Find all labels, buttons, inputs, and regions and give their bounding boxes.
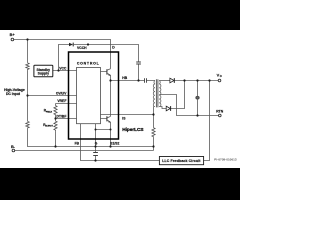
svg-text:OV/UV: OV/UV bbox=[56, 91, 67, 95]
svg-text:FB: FB bbox=[75, 142, 80, 146]
svg-text:BURST: BURST bbox=[45, 126, 53, 128]
svg-text:VCC: VCC bbox=[59, 67, 67, 71]
svg-text:HB: HB bbox=[122, 76, 127, 80]
svg-text:LLC Feedback Circuit: LLC Feedback Circuit bbox=[162, 159, 201, 163]
svg-text:VREF: VREF bbox=[57, 99, 66, 103]
svg-text:FMAX: FMAX bbox=[46, 110, 53, 113]
svg-text:Supply: Supply bbox=[38, 72, 50, 76]
svg-text:B+: B+ bbox=[10, 32, 16, 37]
svg-text:DT/BF: DT/BF bbox=[56, 114, 66, 118]
svg-text:CONTROL: CONTROL bbox=[77, 62, 100, 66]
svg-text:PI-6709-010613: PI-6709-010613 bbox=[214, 158, 237, 162]
svg-text:B-: B- bbox=[11, 144, 16, 149]
svg-text:S1/S2: S1/S2 bbox=[110, 142, 119, 146]
svg-text:DC Input: DC Input bbox=[6, 92, 21, 96]
svg-text:G: G bbox=[95, 142, 98, 146]
svg-text:O: O bbox=[220, 75, 222, 78]
svg-text:HiperLCS: HiperLCS bbox=[122, 127, 143, 132]
svg-text:VCCH: VCCH bbox=[77, 46, 87, 50]
svg-text:RTN: RTN bbox=[216, 109, 224, 113]
